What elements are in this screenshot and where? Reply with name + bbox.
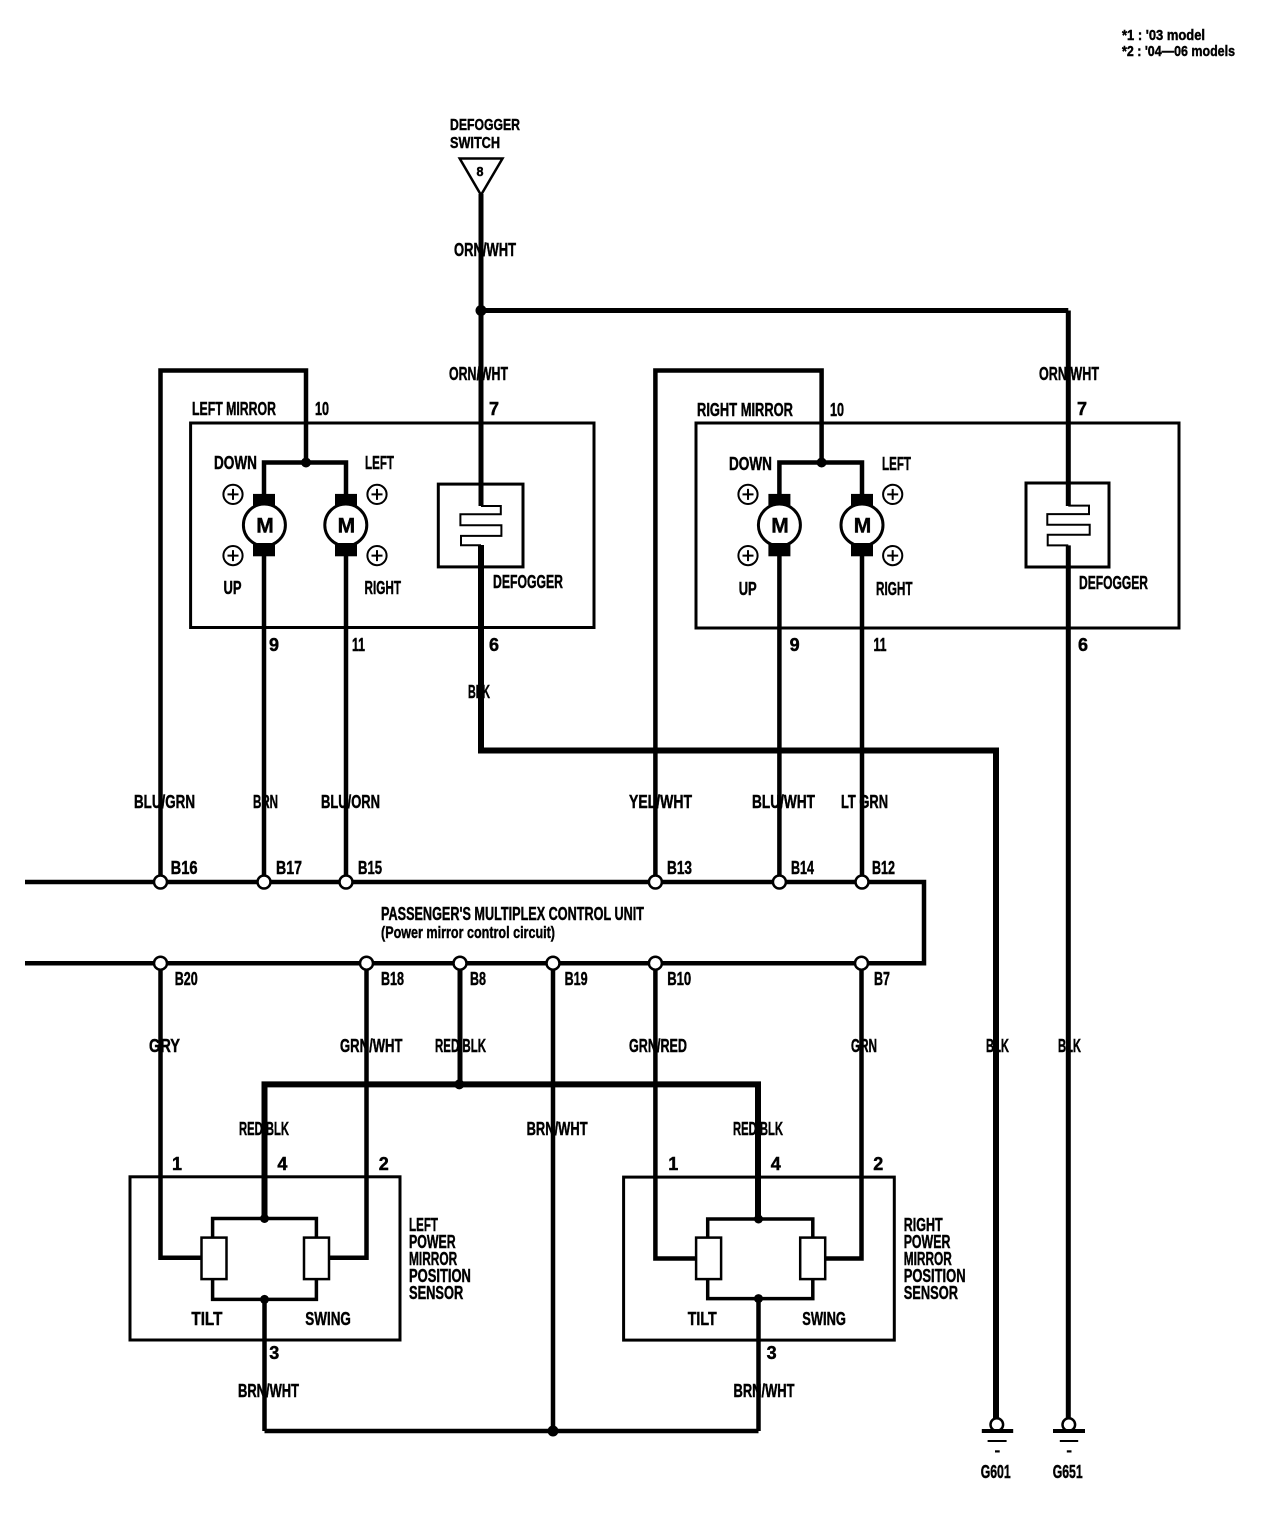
svg-text:TILT: TILT	[688, 1309, 717, 1329]
svg-text:LEFT: LEFT	[365, 453, 394, 473]
node junction RED/BLK rail at B8	[454, 1079, 464, 1089]
resistor swing potentiometer left sensor	[304, 1238, 329, 1280]
svg-text:8: 8	[477, 165, 484, 179]
svg-text:B14: B14	[791, 858, 814, 878]
svg-text:RED/BLK: RED/BLK	[435, 1036, 486, 1056]
svg-text:B15: B15	[358, 858, 382, 878]
wire right sensor pin 3 to bottom rail	[756, 1299, 761, 1431]
wire RED/BLK from B8 to distribution rail	[458, 970, 463, 1085]
node junction left sensor bottom	[260, 1295, 269, 1304]
polarity mark plus (right mirror down)	[738, 485, 757, 504]
wire motor M1 output to B17	[262, 556, 267, 876]
svg-text:BRN: BRN	[253, 792, 278, 812]
svg-text:B16: B16	[171, 858, 198, 878]
svg-text:4: 4	[277, 1154, 287, 1174]
connector pin B18	[360, 957, 373, 970]
svg-text:B13: B13	[667, 858, 692, 878]
node junction ORN/WHT split	[476, 305, 487, 316]
svg-text:BLK: BLK	[468, 682, 490, 702]
svg-text:11: 11	[874, 635, 887, 655]
svg-text:BLU/GRN: BLU/GRN	[134, 792, 195, 812]
connector pin B20	[154, 957, 167, 970]
svg-text:M: M	[338, 515, 356, 538]
svg-text:TILT: TILT	[191, 1309, 222, 1329]
svg-text:7: 7	[1077, 399, 1087, 419]
wire BLK defogger pin 6 to ground run	[481, 545, 996, 1419]
svg-text:DEFOGGER: DEFOGGER	[493, 572, 563, 592]
wire left sensor top rail	[213, 1219, 317, 1239]
polarity mark plus (right mirror left)	[883, 485, 902, 504]
svg-text:ORN/WHT: ORN/WHT	[1039, 364, 1099, 384]
svg-text:SWING: SWING	[802, 1309, 846, 1329]
motor M4 right mirror left/right	[841, 494, 883, 556]
svg-text:LT GRN: LT GRN	[841, 792, 888, 812]
wire motor M4 output to B12	[860, 556, 865, 876]
wire ORN/WHT from switch to junction	[479, 194, 484, 311]
connector pin B19	[547, 957, 560, 970]
svg-text:2: 2	[873, 1154, 883, 1174]
svg-text:DEFOGGER: DEFOGGER	[1079, 573, 1148, 593]
svg-text:RIGHT: RIGHT	[876, 579, 913, 599]
svg-text:B17: B17	[276, 858, 302, 878]
svg-text:4: 4	[771, 1154, 781, 1174]
svg-text:B10: B10	[667, 969, 691, 989]
svg-text:ORN/WHT: ORN/WHT	[449, 364, 508, 384]
wire motor M3 output to B14	[777, 556, 782, 876]
defogger switch connector S1	[450, 117, 520, 195]
svg-text:(Power mirror control circuit): (Power mirror control circuit)	[381, 923, 555, 942]
svg-text:B8: B8	[470, 969, 486, 989]
wire GRN/RED from B10 to right sensor pin 1	[655, 970, 696, 1259]
svg-text:UP: UP	[739, 579, 757, 599]
resistor swing potentiometer right sensor	[800, 1238, 825, 1280]
wire motor M2 output to B15	[344, 556, 349, 876]
svg-text:SENSOR: SENSOR	[904, 1283, 958, 1303]
node junction right sensor top	[754, 1215, 763, 1224]
svg-text:BLK: BLK	[986, 1036, 1009, 1056]
defogger element left mirror	[438, 484, 523, 567]
svg-text:RIGHT: RIGHT	[365, 578, 402, 598]
wire right sensor top rail	[708, 1219, 813, 1238]
connector pin B13	[649, 876, 662, 889]
svg-text:6: 6	[1078, 635, 1088, 655]
wire right sensor bottom rail	[708, 1279, 813, 1299]
svg-text:SWITCH: SWITCH	[450, 135, 500, 152]
wire left sensor bottom rail	[213, 1279, 317, 1299]
polarity mark plus (left mirror up)	[223, 546, 242, 565]
svg-text:*1 : '03 model: *1 : '03 model	[1122, 27, 1205, 44]
svg-text:GRN: GRN	[851, 1036, 877, 1056]
svg-text:GRN/WHT: GRN/WHT	[340, 1036, 403, 1056]
wire B13 feed up-and-over into right mirror pin 10	[655, 371, 821, 876]
wire GRN/WHT from B18 to left sensor pin 2	[329, 970, 367, 1258]
svg-text:B18: B18	[381, 969, 404, 989]
label LEFT POWER MIRROR POSITION SENSOR	[409, 1215, 471, 1303]
wire RED/BLK distribution rail to both sensors pin 4	[265, 1084, 759, 1219]
svg-text:9: 9	[269, 635, 279, 655]
svg-text:SENSOR: SENSOR	[409, 1283, 463, 1303]
control unit U1 passenger's multiplex control unit	[25, 882, 924, 963]
svg-text:3: 3	[269, 1343, 279, 1363]
svg-text:RED/BLK: RED/BLK	[733, 1119, 783, 1139]
svg-text:LEFT: LEFT	[882, 454, 911, 474]
svg-text:G601: G601	[981, 1462, 1011, 1482]
wire ORN/WHT right defogger pin 6 to ground G651	[1066, 545, 1071, 1418]
svg-text:BLU/ORN: BLU/ORN	[321, 792, 380, 812]
wire B16 feed up-and-over into left mirror pin 10	[161, 371, 307, 876]
defogger element right mirror	[1026, 483, 1109, 567]
svg-text:7: 7	[489, 399, 499, 419]
wire BRN/WHT bottom rail joining sensors and B19	[265, 1429, 759, 1434]
wire ORN/WHT drop to left defogger pin 7	[479, 311, 484, 507]
svg-text:BRN/WHT: BRN/WHT	[527, 1119, 588, 1139]
motor M2 left mirror left/right	[325, 494, 367, 556]
wire motor supply rail (left mirror)	[264, 463, 346, 495]
svg-text:M: M	[771, 515, 789, 538]
svg-text:RED/BLK: RED/BLK	[239, 1119, 289, 1139]
node junction left sensor top	[260, 1214, 269, 1223]
svg-text:UP: UP	[224, 578, 242, 598]
svg-text:B20: B20	[175, 969, 198, 989]
svg-text:BRN/WHT: BRN/WHT	[734, 1381, 795, 1401]
svg-text:ORN/WHT: ORN/WHT	[454, 240, 516, 260]
ground G601	[981, 1418, 1014, 1482]
svg-text:B7: B7	[874, 969, 890, 989]
svg-text:11: 11	[352, 635, 365, 655]
svg-text:M: M	[854, 515, 872, 538]
label RIGHT POWER MIRROR POSITION SENSOR	[904, 1215, 966, 1303]
svg-text:BLK: BLK	[1058, 1036, 1081, 1056]
polarity mark plus (left mirror down)	[223, 485, 242, 504]
svg-text:G651: G651	[1053, 1462, 1083, 1482]
svg-text:PASSENGER'S MULTIPLEX CONTROL: PASSENGER'S MULTIPLEX CONTROL UNIT	[381, 904, 644, 924]
svg-text:3: 3	[767, 1343, 777, 1363]
polarity mark plus (right mirror up)	[738, 546, 757, 565]
motor M3 right mirror up/down	[758, 494, 800, 556]
svg-text:GRN/RED: GRN/RED	[629, 1036, 687, 1056]
left power mirror position sensor box	[130, 1177, 400, 1340]
ground G651	[1053, 1418, 1085, 1482]
connector pin B10	[649, 957, 662, 970]
svg-text:YEL/WHT: YEL/WHT	[629, 792, 692, 812]
svg-text:RIGHT MIRROR: RIGHT MIRROR	[697, 400, 793, 420]
polarity mark plus (left mirror left)	[367, 485, 386, 504]
svg-text:1: 1	[668, 1154, 678, 1174]
polarity mark plus (left mirror right)	[367, 546, 386, 565]
svg-text:DEFOGGER: DEFOGGER	[450, 117, 520, 134]
svg-text:BLU/WHT: BLU/WHT	[752, 792, 815, 812]
svg-text:LEFT MIRROR: LEFT MIRROR	[192, 399, 276, 419]
right mirror box	[696, 423, 1179, 628]
svg-text:2: 2	[379, 1154, 389, 1174]
note model years	[1122, 27, 1235, 60]
resistor tilt potentiometer left sensor	[202, 1238, 227, 1280]
connector pin B17	[258, 876, 271, 889]
node junction BRN/WHT rail at B19	[548, 1426, 559, 1437]
node junction pin10 rail (right mirror)	[817, 458, 827, 468]
wire motor supply rail (right mirror)	[779, 463, 862, 495]
wire left sensor pin 3 to bottom rail	[262, 1299, 267, 1431]
svg-text:*2 : '04—06 models: *2 : '04—06 models	[1122, 43, 1235, 60]
svg-text:9: 9	[790, 635, 800, 655]
node junction pin10 rail (left mirror)	[301, 458, 311, 468]
connector pin B14	[773, 876, 786, 889]
svg-text:10: 10	[315, 399, 329, 419]
resistor tilt potentiometer right sensor	[696, 1238, 721, 1280]
connector pin B16	[154, 876, 167, 889]
svg-text:M: M	[256, 515, 274, 538]
wire GRN from B7 to right sensor pin 2	[825, 970, 862, 1259]
right power mirror position sensor box	[624, 1177, 895, 1340]
connector pin B12	[856, 876, 869, 889]
wire GRY from B20 to left sensor pin 1	[161, 970, 202, 1258]
svg-text:DOWN: DOWN	[214, 453, 257, 473]
polarity mark plus (right mirror right)	[883, 546, 902, 565]
svg-text:SWING: SWING	[305, 1309, 351, 1329]
wire ORN/WHT drop to right defogger pin 7	[1066, 311, 1071, 507]
node junction right sensor bottom	[754, 1294, 763, 1303]
svg-text:B19: B19	[565, 969, 588, 989]
motor M1 left mirror up/down	[243, 494, 285, 556]
wire BRN/WHT from B19 to bottom rail	[551, 970, 556, 1431]
svg-text:DOWN: DOWN	[729, 454, 772, 474]
svg-text:B12: B12	[872, 858, 895, 878]
left mirror box	[191, 423, 594, 628]
svg-text:6: 6	[489, 635, 499, 655]
svg-text:1: 1	[172, 1154, 182, 1174]
connector pin B15	[340, 876, 353, 889]
svg-text:BRN/WHT: BRN/WHT	[238, 1381, 299, 1401]
wire ORN/WHT horizontal feed to right mirror	[481, 308, 1068, 313]
svg-text:10: 10	[830, 400, 844, 420]
connector pin B8	[454, 957, 467, 970]
connector pin B7	[855, 957, 868, 970]
svg-text:GRY: GRY	[149, 1036, 180, 1056]
